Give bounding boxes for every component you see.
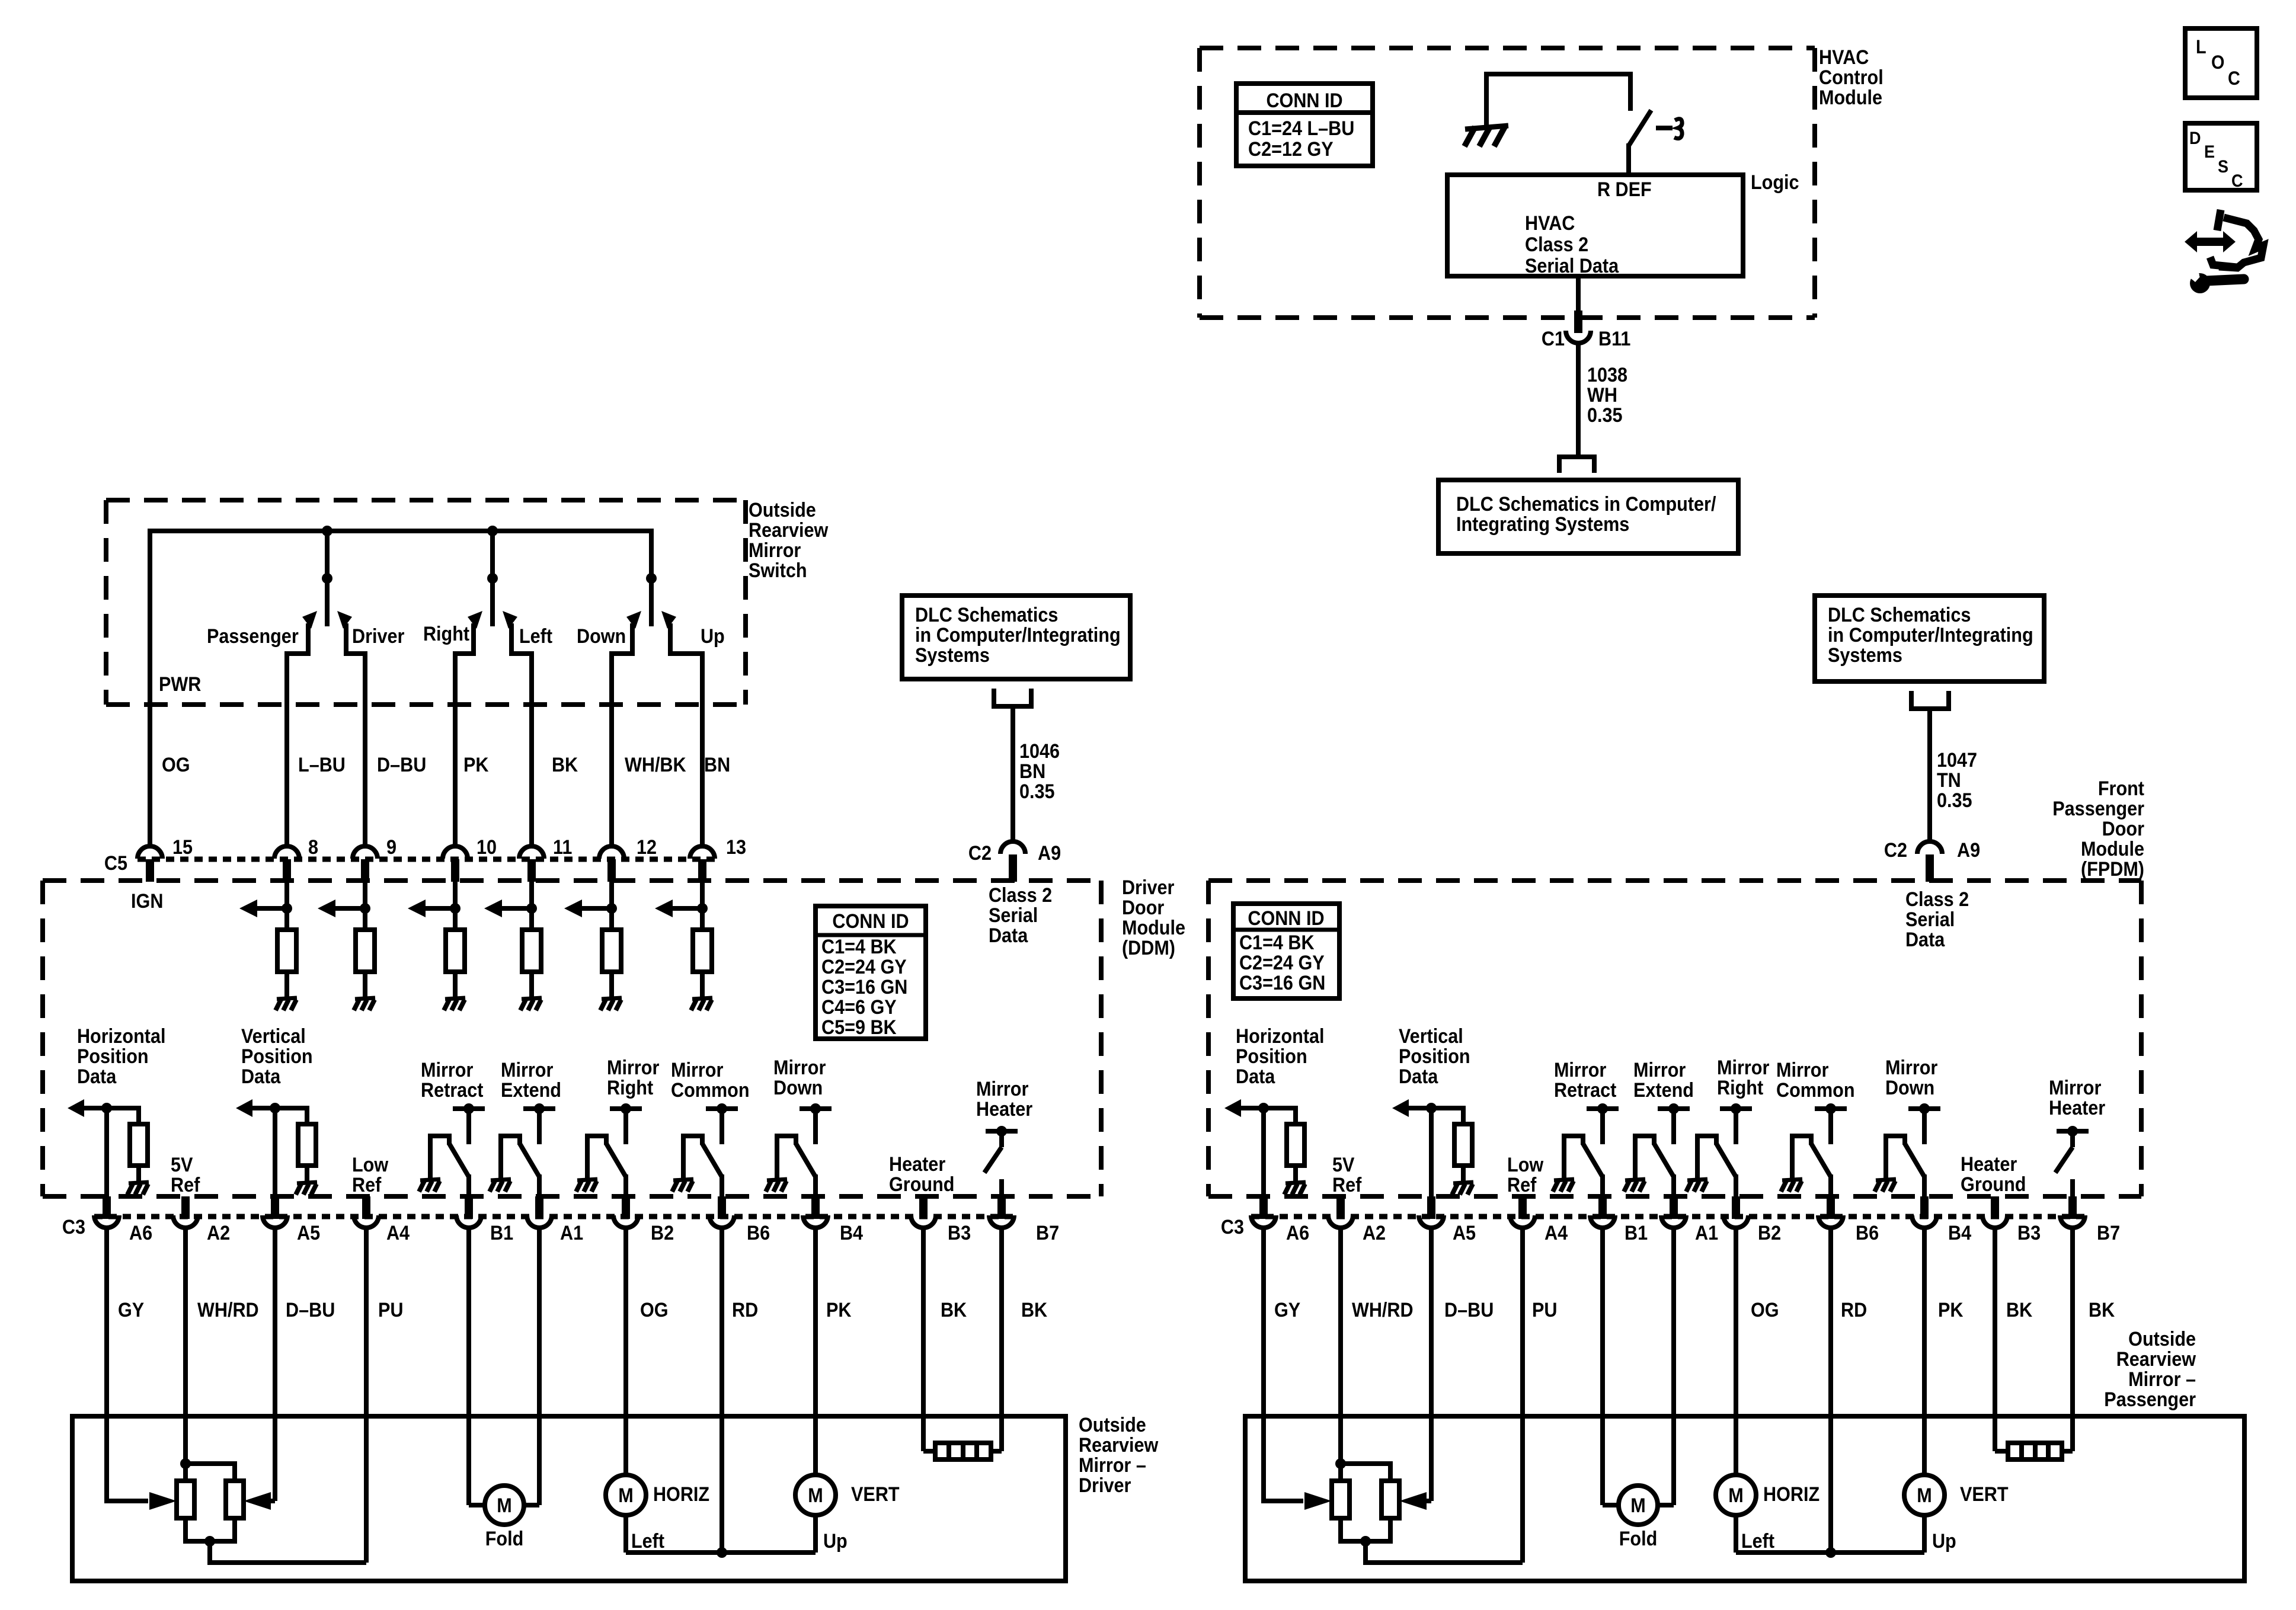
connector pin B2 socket bbox=[613, 1215, 638, 1228]
connector pin A2 socket bbox=[1328, 1215, 1353, 1228]
branch A2 to right pot (passenger) bbox=[1341, 1464, 1390, 1481]
driver output switch A1 Mirror Extend ground contact bbox=[501, 1136, 520, 1178]
svg-text:Outside: Outside bbox=[1079, 1414, 1146, 1436]
svg-text:Passenger: Passenger bbox=[207, 625, 299, 648]
connector pin A6 stub bbox=[103, 1196, 111, 1219]
heater element (driver) bbox=[935, 1443, 991, 1459]
svg-text:M: M bbox=[808, 1484, 823, 1507]
wire B1 Mirror Retract (FPDM) pin lead bbox=[1600, 1174, 1605, 1198]
connector pin A2 stub bbox=[1336, 1196, 1345, 1219]
switch blade Right arrowhead bbox=[468, 611, 482, 629]
svg-text:CONN ID: CONN ID bbox=[1266, 89, 1342, 112]
driver output switch B4 Mirror Down ground contact bbox=[777, 1136, 796, 1178]
svg-text:L–BU: L–BU bbox=[298, 754, 346, 776]
branch A6 to feedback resistor bbox=[107, 1108, 139, 1124]
svg-text:0.35: 0.35 bbox=[1019, 780, 1055, 803]
junction dot A2 pot top bbox=[180, 1458, 191, 1469]
wire to ground A6 bbox=[136, 1166, 141, 1182]
svg-text:C3: C3 bbox=[1221, 1216, 1244, 1238]
arrow pin 10 to logic bbox=[424, 906, 455, 911]
connector C2/A9 socket (left) bbox=[1000, 841, 1025, 854]
connector pin 8 stub bbox=[283, 859, 291, 882]
svg-text:in Computer/Integrating: in Computer/Integrating bbox=[915, 624, 1121, 646]
svg-text:OG: OG bbox=[162, 754, 190, 776]
wire horiz motor down (driver) bbox=[623, 1515, 628, 1553]
connector pin A5 socket bbox=[263, 1215, 287, 1228]
svg-text:Common: Common bbox=[1776, 1079, 1855, 1102]
svg-text:8: 8 bbox=[308, 836, 318, 859]
svg-text:C2=24 GY: C2=24 GY bbox=[1239, 952, 1325, 974]
connector pin B7 stub bbox=[997, 1196, 1006, 1219]
wire logic box to C1 connector bbox=[1576, 276, 1581, 313]
svg-text:D–BU: D–BU bbox=[377, 754, 426, 776]
connector pin B3 socket bbox=[1982, 1215, 2007, 1228]
svg-text:Right: Right bbox=[423, 623, 469, 645]
wire B1 Mirror Retract pin lead bbox=[466, 1174, 471, 1198]
svg-text:in Computer/Integrating: in Computer/Integrating bbox=[1828, 624, 2033, 646]
svg-text:5V: 5V bbox=[1332, 1154, 1355, 1176]
pot resistor left (driver) bbox=[177, 1481, 194, 1518]
wire switch to logic box bbox=[1626, 143, 1631, 175]
svg-text:Mirror –: Mirror – bbox=[2128, 1368, 2196, 1391]
arrow pin 12 to logic bbox=[581, 906, 612, 911]
wire A6 position data (FPDM) bbox=[1261, 1108, 1266, 1198]
Driver Door Module dashed box bbox=[43, 881, 1101, 1196]
wire A2 into left pot (passenger) bbox=[1338, 1464, 1343, 1481]
svg-text:Outside: Outside bbox=[2128, 1328, 2196, 1350]
wire resistor 10 to ground bbox=[453, 972, 458, 998]
svg-text:10: 10 bbox=[477, 836, 497, 859]
pot bottoms join (passenger) bbox=[1341, 1518, 1390, 1541]
svg-text:Data: Data bbox=[1399, 1065, 1438, 1088]
feedback resistor A6 bbox=[130, 1124, 148, 1166]
connector pin 11 socket bbox=[519, 846, 544, 859]
pot resistor left (passenger) bbox=[1332, 1481, 1350, 1518]
connector pin B3 stub bbox=[1991, 1196, 1999, 1219]
driver output switch B6 Mirror Common (FPDM) ground contact bbox=[1792, 1136, 1811, 1178]
svg-text:Ref: Ref bbox=[1507, 1174, 1537, 1196]
svg-text:Driver: Driver bbox=[1079, 1474, 1131, 1497]
svg-text:Ref: Ref bbox=[171, 1174, 200, 1196]
wire BK B7 to heater bbox=[999, 1227, 1004, 1451]
driver output switch B2 Mirror Right (FPDM) supply bar bbox=[1720, 1106, 1752, 1111]
junction dot A5 (FPDM) bbox=[1426, 1103, 1437, 1113]
driver output switch A1 Mirror Extend (FPDM) supply bar bbox=[1658, 1106, 1690, 1111]
svg-text:PK: PK bbox=[826, 1299, 852, 1321]
connector row C3 dotted line (DDM) bbox=[94, 1214, 1015, 1219]
svg-text:Retract: Retract bbox=[421, 1079, 484, 1102]
bottom run vert to junction (driver) bbox=[722, 1550, 816, 1555]
junction dot pin 13 bbox=[697, 903, 708, 914]
branch A5 to feedback resistor bbox=[275, 1108, 307, 1124]
wire resistor 11 to ground bbox=[529, 972, 534, 998]
svg-text:Rearview: Rearview bbox=[749, 519, 829, 542]
svg-text:A9: A9 bbox=[1038, 842, 1061, 865]
svg-text:Outside: Outside bbox=[749, 499, 816, 521]
wire A1 to fold motor bbox=[537, 1227, 542, 1505]
svg-text:BK: BK bbox=[552, 754, 578, 776]
svg-text:M: M bbox=[1917, 1484, 1932, 1507]
svg-text:Down: Down bbox=[1885, 1077, 1934, 1099]
connector pin B4 socket bbox=[1912, 1215, 1937, 1228]
wire A5 position data bbox=[273, 1108, 277, 1198]
wire OG B2 to horiz motor bbox=[623, 1227, 628, 1475]
wire pin 8 into module bbox=[284, 882, 289, 930]
DLC Schematics in Computer/Integrating Systems box (top) bbox=[1438, 480, 1738, 553]
svg-text:Mirror: Mirror bbox=[501, 1059, 554, 1081]
ground A6 branch (FPDM) bbox=[1285, 1182, 1306, 1183]
connector pin 12 socket bbox=[599, 846, 624, 859]
svg-text:Systems: Systems bbox=[915, 644, 990, 667]
connector pin B4 socket bbox=[803, 1215, 828, 1228]
connector C1/B11 socket bbox=[1566, 331, 1591, 343]
connector pin B6 stub bbox=[718, 1196, 726, 1219]
fold motor leads (driver) bbox=[469, 1503, 485, 1507]
svg-text:Integrating Systems: Integrating Systems bbox=[1456, 513, 1629, 536]
driver output switch B6 Mirror Common (FPDM) supply bar bbox=[1815, 1106, 1847, 1111]
wire WH/RD A2 to mirror bbox=[183, 1227, 188, 1464]
svg-text:BK: BK bbox=[1021, 1299, 1048, 1321]
svg-text:Logic: Logic bbox=[1751, 171, 1799, 194]
heater switch B7 supply bar (FPDM) bbox=[2057, 1129, 2089, 1134]
switch blade Passenger arrowhead bbox=[302, 611, 317, 629]
ground pin 8 bbox=[277, 998, 297, 999]
svg-text:Driver: Driver bbox=[1122, 876, 1175, 899]
svg-text:DLC Schematics: DLC Schematics bbox=[1828, 604, 1971, 626]
svg-text:B4: B4 bbox=[840, 1222, 863, 1244]
arrow A6 wiper into pot bbox=[107, 1416, 148, 1501]
driver output switch B6 Mirror Common blade bbox=[702, 1144, 722, 1177]
ground pin 10 bbox=[445, 998, 465, 999]
svg-text:Down: Down bbox=[773, 1077, 823, 1099]
svg-text:Ground: Ground bbox=[889, 1173, 954, 1196]
bottom run vert to junction (passenger) bbox=[1831, 1550, 1924, 1555]
driver output switch B6 Mirror Common supply bar bbox=[706, 1106, 738, 1111]
wire pot to A4 low ref (passenger) bbox=[1366, 1541, 1523, 1563]
svg-text:B7: B7 bbox=[1036, 1222, 1059, 1244]
svg-text:Door: Door bbox=[2102, 818, 2145, 840]
arrow A5 vertical position (FPDM) bbox=[1408, 1106, 1431, 1110]
svg-text:B6: B6 bbox=[1856, 1222, 1879, 1244]
svg-text:S: S bbox=[2218, 157, 2228, 177]
connector pin A2 socket bbox=[173, 1215, 198, 1228]
arrow A6 horizontal position (FPDM) bbox=[1240, 1106, 1264, 1110]
CONN ID divider (DDM) bbox=[816, 933, 926, 937]
driver output switch A1 Mirror Extend supply bar bbox=[523, 1106, 555, 1111]
wire pin 13 into module bbox=[700, 882, 705, 930]
svg-text:Mirror: Mirror bbox=[1717, 1057, 1770, 1079]
wire PU A4 to mirror (FPDM) bbox=[1520, 1227, 1525, 1563]
svg-text:Heater: Heater bbox=[976, 1098, 1033, 1121]
connector C2/A9 socket (right) bbox=[1917, 841, 1942, 854]
wire BK B3 to heater (FPDM) bbox=[1993, 1227, 1997, 1451]
svg-text:DLC Schematics in Computer/: DLC Schematics in Computer/ bbox=[1456, 493, 1716, 516]
driver output switch A1 Mirror Extend blade bbox=[520, 1144, 539, 1177]
svg-text:C3: C3 bbox=[62, 1216, 85, 1238]
branch A6 to feedback resistor (FPDM) bbox=[1264, 1108, 1296, 1124]
pot resistor right (driver) bbox=[226, 1481, 244, 1518]
wire B4 Mirror Down pin lead bbox=[813, 1174, 818, 1198]
switch blade Right contact wire bbox=[455, 623, 474, 846]
svg-text:Front: Front bbox=[2098, 777, 2144, 800]
driver output switch B2 Mirror Right ground contact bbox=[587, 1136, 606, 1178]
connector pin B3 stub bbox=[919, 1196, 928, 1219]
ground of switch B4 Mirror Down bbox=[767, 1179, 787, 1180]
svg-text:BK: BK bbox=[2089, 1299, 2115, 1321]
svg-text:Mirror: Mirror bbox=[671, 1059, 724, 1081]
svg-text:Heater: Heater bbox=[1961, 1153, 2017, 1176]
connector pin 9 stub bbox=[361, 859, 369, 882]
svg-text:12: 12 bbox=[637, 836, 657, 859]
svg-text:CONN ID: CONN ID bbox=[1248, 907, 1324, 930]
connector pin B7 socket bbox=[2060, 1215, 2085, 1228]
svg-text:1038: 1038 bbox=[1587, 364, 1627, 386]
connector pin B6 stub bbox=[1827, 1196, 1835, 1219]
junction dot B6 bottom (driver) bbox=[717, 1547, 727, 1558]
connector pin A6 socket bbox=[94, 1215, 119, 1228]
svg-text:C4=6 GY: C4=6 GY bbox=[821, 996, 897, 1019]
driver output switch B4 Mirror Down (FPDM) blade bbox=[1905, 1144, 1924, 1177]
service icon mirror glass outline bbox=[2217, 210, 2221, 231]
fold motor leads (passenger) bbox=[1603, 1503, 1619, 1507]
svg-text:9: 9 bbox=[386, 836, 396, 859]
svg-text:Mirror: Mirror bbox=[749, 539, 801, 562]
logic box bbox=[1447, 175, 1743, 276]
svg-text:C: C bbox=[2228, 68, 2240, 89]
horiz motor M (driver) bbox=[606, 1475, 646, 1515]
driver output switch B6 Mirror Common ground contact bbox=[683, 1136, 702, 1178]
svg-text:DLC Schematics: DLC Schematics bbox=[915, 604, 1058, 626]
switch blade Down contact wire bbox=[612, 623, 632, 846]
ground of switch B6 Mirror Common (FPDM) bbox=[1782, 1179, 1802, 1180]
connector pin A1 socket bbox=[1661, 1215, 1686, 1228]
junction dot PWR bus at right/left switch bbox=[487, 526, 498, 536]
svg-text:M: M bbox=[618, 1484, 633, 1507]
wire 1046 vertical bbox=[1011, 706, 1015, 844]
junction dot A6 (FPDM) bbox=[1258, 1103, 1269, 1113]
svg-text:Data: Data bbox=[1905, 929, 1945, 951]
junction dot A6 bbox=[101, 1103, 112, 1113]
driver output switch B6 Mirror Common (FPDM) blade bbox=[1811, 1144, 1831, 1177]
connector pin B7 socket bbox=[989, 1215, 1014, 1228]
junction dot common right/left bbox=[487, 573, 498, 584]
heater element (passenger) bbox=[2008, 1443, 2062, 1459]
svg-text:Heater: Heater bbox=[889, 1153, 946, 1176]
svg-text:Vertical: Vertical bbox=[241, 1025, 306, 1048]
svg-text:WH/RD: WH/RD bbox=[1352, 1299, 1414, 1321]
wire ground loop in HVAC module bbox=[1486, 74, 1630, 127]
junction dot A5 bbox=[270, 1103, 280, 1113]
svg-text:Door: Door bbox=[1122, 897, 1165, 919]
svg-text:C1=24 L–BU: C1=24 L–BU bbox=[1248, 117, 1354, 140]
connector pin A4 stub bbox=[1518, 1196, 1527, 1219]
svg-text:Mirror: Mirror bbox=[1554, 1059, 1607, 1081]
svg-text:A1: A1 bbox=[560, 1222, 583, 1244]
svg-text:Up: Up bbox=[701, 625, 725, 648]
wire WH/RD A2 to mirror (FPDM) bbox=[1338, 1227, 1343, 1464]
wire OG B2 to horiz motor (FPDM) bbox=[1734, 1227, 1738, 1475]
arrow A5 wiper into pot (passenger) bbox=[1426, 1499, 1431, 1503]
svg-text:Down: Down bbox=[577, 625, 626, 648]
svg-text:OG: OG bbox=[1751, 1299, 1779, 1321]
driver output switch B1 Mirror Retract (FPDM) supply bar bbox=[1587, 1106, 1619, 1111]
DLC Schematics box (right) bbox=[1815, 596, 2044, 681]
heater element leads (passenger) bbox=[1995, 1449, 2010, 1454]
svg-text:A5: A5 bbox=[1453, 1222, 1476, 1244]
driver output switch B4 Mirror Down blade bbox=[796, 1144, 816, 1177]
wire B4 Mirror Down (FPDM) pin lead bbox=[1922, 1174, 1927, 1198]
wire RD B6 to junction (FPDM) bbox=[1828, 1227, 1833, 1553]
wire D-BU A5 to mirror (FPDM) bbox=[1429, 1227, 1434, 1501]
svg-text:Ref: Ref bbox=[1332, 1174, 1362, 1196]
wire pin 10 into module bbox=[453, 882, 458, 930]
Outside Rearview Mirror Switch dashed box bbox=[106, 500, 746, 705]
switch blade Passenger contact wire bbox=[287, 623, 308, 846]
svg-text:CONN ID: CONN ID bbox=[832, 910, 909, 933]
vert motor M (passenger) bbox=[1904, 1475, 1945, 1515]
wire 1038 vertical bbox=[1576, 343, 1581, 454]
svg-text:Right: Right bbox=[1717, 1077, 1763, 1099]
wire vert motor down (passenger) bbox=[1922, 1515, 1927, 1553]
arrow pin 8 to logic bbox=[256, 906, 287, 911]
svg-text:Data: Data bbox=[989, 924, 1028, 947]
ground of switch B2 Mirror Right bbox=[577, 1179, 597, 1180]
ground A5 branch (FPDM) bbox=[1453, 1182, 1473, 1183]
svg-text:O: O bbox=[2211, 52, 2224, 73]
connector pin A4 socket bbox=[1510, 1215, 1535, 1228]
svg-text:Serial: Serial bbox=[1905, 908, 1955, 931]
resistor pin 8 bbox=[277, 930, 296, 972]
svg-text:Class 2: Class 2 bbox=[1905, 888, 1969, 911]
svg-text:GY: GY bbox=[118, 1299, 145, 1321]
service icon double arrow bbox=[2185, 231, 2236, 252]
svg-text:C5: C5 bbox=[104, 852, 127, 875]
connector pin B7 stub bbox=[2068, 1196, 2077, 1219]
wire pin 12 into module bbox=[609, 882, 614, 930]
resistor pin 13 bbox=[693, 930, 712, 972]
svg-text:Class 2: Class 2 bbox=[989, 884, 1052, 907]
svg-text:C1=4 BK: C1=4 BK bbox=[821, 936, 897, 958]
svg-text:GY: GY bbox=[1274, 1299, 1301, 1321]
connector pin B1 socket bbox=[1590, 1215, 1615, 1228]
CONN ID box (HVAC) bbox=[1236, 84, 1373, 166]
svg-text:Module: Module bbox=[1122, 917, 1185, 939]
svg-text:HORIZ: HORIZ bbox=[1763, 1483, 1819, 1506]
driver output switch B4 Mirror Down (FPDM) ground contact bbox=[1886, 1136, 1905, 1178]
connector row C3 dotted line (FPDM) bbox=[1251, 1214, 2086, 1219]
driver output switch B1 Mirror Retract (FPDM) ground contact bbox=[1564, 1136, 1583, 1178]
svg-text:Mirror –: Mirror – bbox=[1079, 1454, 1146, 1477]
driver output switch A1 Mirror Extend (FPDM) ground contact bbox=[1635, 1136, 1654, 1178]
svg-text:A5: A5 bbox=[297, 1222, 320, 1244]
svg-text:Data: Data bbox=[77, 1065, 117, 1088]
svg-text:B1: B1 bbox=[490, 1222, 513, 1244]
wire resistor 12 to ground bbox=[609, 972, 614, 998]
heater element leads (driver) bbox=[923, 1449, 938, 1454]
svg-text:D–BU: D–BU bbox=[1444, 1299, 1494, 1321]
svg-text:C1: C1 bbox=[1542, 328, 1565, 350]
ground pin 11 bbox=[522, 998, 542, 999]
svg-text:Driver: Driver bbox=[352, 625, 405, 648]
svg-text:HORIZ: HORIZ bbox=[653, 1483, 709, 1506]
wire B7 pin lead (DDM) bbox=[999, 1179, 1004, 1198]
DESC icon box bbox=[2185, 123, 2257, 190]
heater switch B7 blade (DDM) bbox=[984, 1147, 1002, 1173]
ground pin 9 bbox=[355, 998, 375, 999]
svg-text:(FPDM): (FPDM) bbox=[2081, 858, 2144, 881]
connector pin B4 stub bbox=[1920, 1196, 1929, 1219]
svg-text:B7: B7 bbox=[2097, 1222, 2120, 1244]
svg-text:Rearview: Rearview bbox=[2116, 1348, 2196, 1371]
svg-text:PK: PK bbox=[463, 754, 489, 776]
svg-text:C3=16 GN: C3=16 GN bbox=[1239, 972, 1325, 994]
svg-text:Ground: Ground bbox=[1961, 1173, 2026, 1196]
connector pin A5 stub bbox=[1427, 1196, 1435, 1219]
svg-text:Mirror: Mirror bbox=[1633, 1059, 1686, 1081]
svg-text:B1: B1 bbox=[1625, 1222, 1648, 1244]
svg-text:A6: A6 bbox=[1286, 1222, 1309, 1244]
junction dot pin 12 bbox=[606, 903, 617, 914]
svg-text:IGN: IGN bbox=[131, 890, 163, 913]
svg-text:Extend: Extend bbox=[501, 1079, 561, 1102]
bottom run horiz to junction (driver) bbox=[626, 1550, 722, 1555]
driver output switch B1 Mirror Retract (FPDM) blade bbox=[1583, 1144, 1603, 1177]
svg-text:HVAC: HVAC bbox=[1819, 46, 1869, 69]
svg-text:A4: A4 bbox=[1544, 1222, 1568, 1244]
pot resistor right (passenger) bbox=[1382, 1481, 1399, 1518]
feedback resistor A5 (FPDM) bbox=[1454, 1124, 1472, 1166]
driver output switch B4 Mirror Down supply bar bbox=[800, 1106, 832, 1111]
svg-text:Left: Left bbox=[519, 625, 552, 648]
connector C2/A9 stub (right) bbox=[1926, 854, 1934, 882]
driver output switch B1 Mirror Retract supply bar bbox=[453, 1106, 485, 1111]
svg-text:Mirror: Mirror bbox=[773, 1057, 826, 1079]
connector pin 11 stub bbox=[527, 859, 536, 882]
wire horiz motor down (passenger) bbox=[1734, 1515, 1738, 1553]
connector pin B1 stub bbox=[1598, 1196, 1607, 1219]
svg-text:(DDM): (DDM) bbox=[1122, 937, 1175, 959]
pot bottoms join (driver) bbox=[186, 1518, 235, 1541]
junction dot pin 8 bbox=[282, 903, 292, 914]
svg-text:B2: B2 bbox=[651, 1222, 674, 1244]
junction dot pot bottom (driver) bbox=[204, 1536, 215, 1547]
wire resistor 13 to ground bbox=[700, 972, 705, 998]
svg-text:Left: Left bbox=[1741, 1530, 1774, 1553]
svg-text:A4: A4 bbox=[386, 1222, 410, 1244]
switch blade Left contact wire bbox=[511, 623, 532, 846]
arrow A5 vertical position bbox=[251, 1106, 275, 1110]
connector pin 15 socket bbox=[137, 846, 162, 859]
connector pin 12 stub bbox=[607, 859, 616, 882]
CONN ID box (DDM) bbox=[816, 906, 926, 1039]
connector pin A2 stub bbox=[181, 1196, 190, 1219]
CONN ID divider (FPDM) bbox=[1233, 928, 1339, 932]
wire A1 to fold motor (FPDM) bbox=[1671, 1227, 1676, 1505]
wire RD B6 to junction bbox=[720, 1227, 724, 1553]
DLC Schematics box (left) bbox=[902, 596, 1130, 679]
connector pin B6 socket bbox=[1818, 1215, 1843, 1228]
svg-text:Right: Right bbox=[607, 1077, 653, 1099]
connector pin A5 socket bbox=[1419, 1215, 1444, 1228]
junction dot pot bottom (passenger) bbox=[1360, 1536, 1371, 1547]
svg-text:11: 11 bbox=[553, 836, 572, 859]
svg-text:Common: Common bbox=[671, 1079, 750, 1102]
svg-text:BK: BK bbox=[941, 1299, 967, 1321]
junction dot pin 11 bbox=[526, 903, 537, 914]
svg-text:B3: B3 bbox=[948, 1222, 971, 1244]
svg-text:A1: A1 bbox=[1695, 1222, 1718, 1244]
wire GY A6 to mirror bbox=[104, 1227, 109, 1416]
